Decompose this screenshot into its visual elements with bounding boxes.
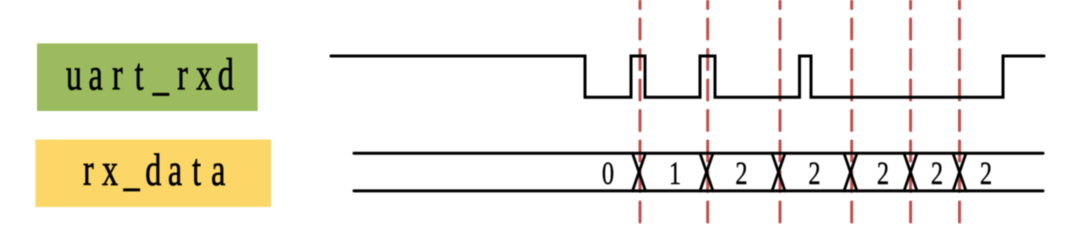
bus transition X4 [844,153,857,191]
svg-text:2: 2 [808,156,820,192]
bus transition X1 [633,153,646,191]
label text uart_rxd [66,49,234,100]
svg-text:a: a [168,144,183,195]
svg-text:x: x [102,144,118,195]
svg-text:2: 2 [877,156,889,192]
sample line 2 [706,0,709,222]
label box rx_data [35,140,271,208]
sample line 3 [779,0,782,222]
svg-text:r: r [177,49,188,100]
bus rx_data top rail [354,152,1043,155]
svg-text:x: x [196,49,212,100]
svg-text:2: 2 [735,156,747,192]
sample line 1 [639,0,642,222]
sample line 5 [909,0,912,222]
bus rx_data bottom rail [354,189,1043,192]
svg-text:d: d [218,49,234,100]
sample line 4 [850,0,853,222]
svg-text:d: d [145,144,161,195]
svg-text:2: 2 [980,156,992,192]
svg-text:_: _ [123,144,141,195]
svg-text:_: _ [152,49,170,100]
bus transition X3 [772,153,785,191]
svg-text:r: r [83,144,94,195]
bus transition X2 [700,153,713,191]
svg-text:t: t [192,144,201,195]
svg-text:a: a [211,144,226,195]
svg-text:t: t [135,49,144,100]
label text rx_data [83,144,226,195]
bus transition X6 [953,153,966,191]
svg-text:0: 0 [602,156,614,192]
svg-text:1: 1 [669,156,681,192]
svg-text:a: a [89,49,104,100]
svg-text:u: u [66,49,82,100]
svg-text:2: 2 [931,156,943,192]
waveform uart_rxd [331,56,1044,97]
bus transition X5 [904,153,917,191]
label box uart_rxd [37,43,258,111]
svg-text:r: r [112,49,123,100]
sample line 6 [958,0,961,222]
